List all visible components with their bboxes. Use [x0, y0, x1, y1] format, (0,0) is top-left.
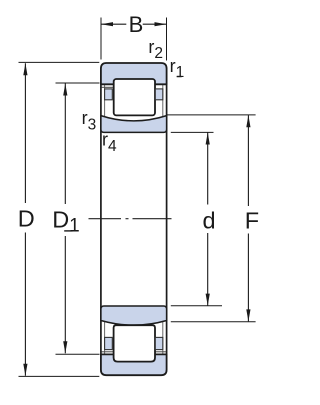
dimension d line: [207, 133, 209, 306]
cage rail upper-left: [102, 86, 114, 88]
bearing face line right: [166, 68, 168, 370]
dimension d arrow top: [206, 133, 210, 145]
dimension B extension right: [166, 18, 168, 61]
dimension F extension bottom: [171, 321, 256, 323]
outer ring flange upper-right: [155, 89, 163, 100]
cage side line upper-left: [104, 84, 106, 116]
dimension D arrow bottom: [23, 364, 27, 376]
dimension F extension top: [167, 114, 256, 116]
dimension D1 arrow bottom: [63, 341, 67, 353]
outer ring lower section: [101, 354, 167, 375]
dimension B arrow right: [155, 22, 167, 26]
dimension D1 arrow top: [63, 84, 67, 96]
outer ring flange lower-right: [155, 337, 163, 349]
outer ring flange upper-left: [105, 89, 113, 100]
cage rail lower-right: [155, 351, 166, 353]
dimension D extension top: [19, 61, 100, 63]
outer ring upper section: [101, 63, 167, 84]
outer ring flange lower-left: [105, 337, 113, 349]
dimension d extension bottom: [171, 305, 222, 307]
dimension D arrow top: [23, 63, 27, 75]
svg-text:B: B: [129, 12, 144, 37]
dimension B arrow left: [101, 22, 113, 26]
dimension D1 extension top: [56, 82, 100, 84]
dimension D line: [24, 63, 26, 376]
bearing face line left: [100, 68, 102, 370]
inner ring upper section: [101, 116, 167, 133]
label D1 base bar of subscript 1: [64, 230, 72, 231]
cage side line lower-left: [104, 322, 106, 354]
dimension F arrow top: [246, 115, 250, 127]
dimension B extension left: [100, 18, 102, 60]
dimension d extension top: [171, 131, 214, 133]
roller upper section: [114, 79, 155, 115]
svg-text:d: d: [203, 208, 216, 234]
roller lower section: [114, 325, 155, 361]
dimension B line: [101, 23, 167, 25]
dimension D1 line: [64, 84, 66, 354]
dimension F arrow bottom: [246, 309, 250, 321]
dimension D extension bottom: [19, 375, 100, 377]
svg-text:D: D: [18, 205, 35, 231]
dimension D1 extension bottom: [56, 353, 100, 355]
inner ring lower section: [101, 306, 167, 325]
centerline: [89, 218, 172, 220]
dimension d arrow bottom: [206, 294, 210, 306]
cage rail lower-left: [102, 351, 114, 353]
svg-text:F: F: [245, 208, 259, 234]
cage side line lower-right: [162, 322, 164, 354]
dimension F line: [247, 115, 249, 321]
label r1 base bar of subscript 1: [177, 76, 182, 77]
cage side line upper-right: [162, 84, 164, 116]
